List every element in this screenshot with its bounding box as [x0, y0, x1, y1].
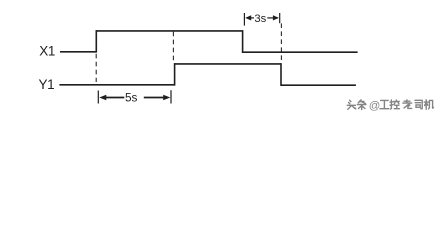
- wire Y1 low segment right: [281, 84, 356, 86]
- dimension 3s left tick: [243, 13, 245, 26]
- dimension 3s left arrow: [245, 15, 254, 20]
- wire Y1 low segment left: [59, 84, 174, 86]
- dashed timing line at Y1 rising edge: [172, 32, 174, 63]
- wire X1 low segment left: [60, 51, 96, 53]
- wire Y1 falling edge: [280, 63, 282, 86]
- dimension 5s left tick: [97, 91, 99, 104]
- wire Y1 high segment: [175, 63, 281, 65]
- wire X1 high segment: [96, 30, 242, 32]
- dimension 5s right tick: [170, 90, 172, 103]
- dimension 5s right arrow: [144, 95, 171, 100]
- dashed timing line at Y1 falling edge: [280, 23, 282, 62]
- dimension 5s left arrow: [99, 95, 124, 100]
- wire X1 low segment right: [243, 51, 358, 53]
- watermark highlight layer (white emboss): [348, 101, 434, 113]
- wire X1 rising edge: [95, 30, 97, 52]
- watermark gray layer: [347, 100, 433, 112]
- wire Y1 rising edge: [174, 63, 176, 86]
- dimension 3s right tick: [279, 13, 281, 23]
- svg-text:5s: 5s: [125, 90, 138, 104]
- svg-text:@: @: [369, 100, 381, 112]
- svg-text:3s: 3s: [254, 13, 266, 25]
- svg-text:X1: X1: [39, 44, 55, 59]
- svg-text:Y1: Y1: [39, 77, 55, 92]
- dimension 3s right arrow: [267, 15, 279, 20]
- dashed timing line at X1 rising edge: [95, 54, 97, 82]
- wire X1 falling edge: [242, 30, 244, 53]
